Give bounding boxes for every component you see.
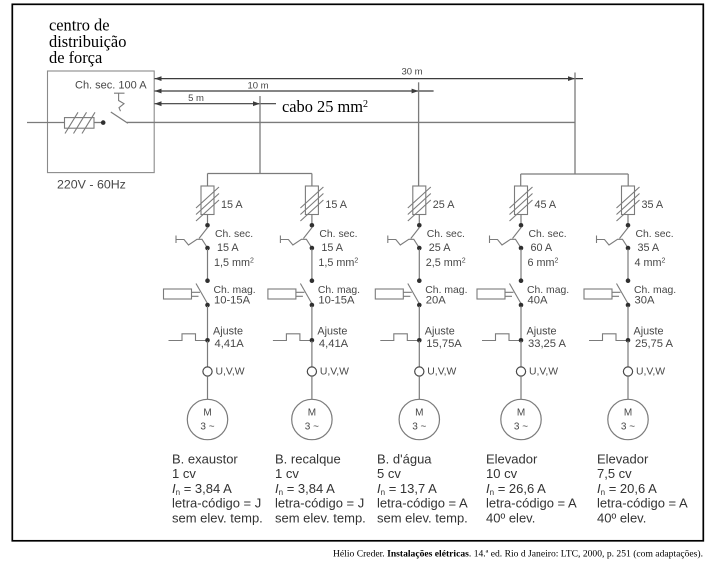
svg-text:Ajuste: Ajuste [317,326,347,338]
svg-text:5 cv: 5 cv [377,466,401,481]
svg-text:U,V,W: U,V,W [320,367,349,378]
svg-text:1 cv: 1 cv [172,466,196,481]
svg-text:1,5 mm2: 1,5 mm2 [318,257,358,269]
svg-text:Ajuste: Ajuste [213,326,243,338]
svg-text:3 ~: 3 ~ [305,422,319,433]
svg-text:30A: 30A [635,295,655,307]
svg-text:Ch. sec.: Ch. sec. [529,229,567,240]
svg-text:30 m: 30 m [401,67,422,78]
svg-text:3 ~: 3 ~ [514,422,528,433]
svg-text:3 ~: 3 ~ [621,422,635,433]
svg-text:4,41A: 4,41A [319,338,349,350]
svg-text:M: M [517,408,525,419]
svg-text:Ch. sec.: Ch. sec. [215,229,253,240]
svg-text:U,V,W: U,V,W [636,367,665,378]
svg-text:15,75A: 15,75A [426,338,462,350]
svg-text:Ch. sec.: Ch. sec. [319,229,357,240]
svg-text:6 mm2: 6 mm2 [528,257,559,269]
svg-text:sem elev. temp.: sem elev. temp. [172,510,263,525]
svg-text:2,5 mm2: 2,5 mm2 [426,257,466,269]
svg-text:letra-código = J: letra-código = J [172,496,261,511]
svg-text:25 A: 25 A [429,242,451,254]
svg-text:sem elev. temp.: sem elev. temp. [275,510,366,525]
svg-text:In = 20,6 A: In = 20,6 A [597,481,657,497]
svg-text:Elevador: Elevador [597,452,649,467]
svg-text:15 A: 15 A [325,199,347,211]
svg-text:35 A: 35 A [642,199,664,211]
svg-text:Hélio Creder. Instalações elét: Hélio Creder. Instalações elétricas. 14.… [333,549,703,560]
svg-text:M: M [203,408,211,419]
svg-text:1 cv: 1 cv [275,466,299,481]
svg-text:B. recalque: B. recalque [275,452,341,467]
svg-text:45 A: 45 A [535,199,557,211]
svg-text:B. exaustor: B. exaustor [172,452,238,467]
svg-text:Ajuste: Ajuste [527,326,557,338]
svg-text:40º elev.: 40º elev. [486,510,535,525]
svg-text:U,V,W: U,V,W [427,367,456,378]
svg-text:Ch. sec.: Ch. sec. [427,229,465,240]
svg-text:Elevador: Elevador [486,452,538,467]
svg-text:4,41A: 4,41A [215,338,245,350]
svg-text:Ch. sec.: Ch. sec. [636,229,674,240]
svg-text:In = 13,7 A: In = 13,7 A [377,481,437,497]
svg-text:sem elev. temp.: sem elev. temp. [377,510,468,525]
svg-text:10 cv: 10 cv [486,466,518,481]
svg-text:33,25 A: 33,25 A [528,338,566,350]
svg-text:letra-código = A: letra-código = A [597,496,688,511]
svg-text:U,V,W: U,V,W [529,367,558,378]
svg-text:10-15A: 10-15A [318,295,355,307]
svg-text:60 A: 60 A [531,242,553,254]
svg-text:15 A: 15 A [221,199,243,211]
svg-text:10 m: 10 m [247,81,268,92]
svg-text:M: M [415,408,423,419]
svg-text:7,5 cv: 7,5 cv [597,466,632,481]
svg-text:In = 26,6 A: In = 26,6 A [486,481,546,497]
svg-text:letra-código = A: letra-código = A [377,496,468,511]
svg-text:10-15A: 10-15A [214,295,251,307]
svg-text:5 m: 5 m [188,93,204,104]
svg-text:4 mm2: 4 mm2 [635,257,666,269]
svg-text:U,V,W: U,V,W [216,367,245,378]
svg-text:15 A: 15 A [217,242,239,254]
svg-text:In = 3,84 A: In = 3,84 A [172,481,232,497]
svg-text:25 A: 25 A [433,199,455,211]
svg-text:3 ~: 3 ~ [412,422,426,433]
svg-text:cabo 25 mm2: cabo 25 mm2 [282,97,368,116]
svg-text:Ajuste: Ajuste [634,326,664,338]
svg-text:In = 3,84 A: In = 3,84 A [275,481,335,497]
svg-text:40º elev.: 40º elev. [597,510,646,525]
svg-text:220V - 60Hz: 220V - 60Hz [57,178,126,192]
svg-text:letra-código = J: letra-código = J [275,496,364,511]
svg-text:1,5 mm2: 1,5 mm2 [214,257,254,269]
svg-text:35 A: 35 A [638,242,660,254]
svg-text:15 A: 15 A [321,242,343,254]
svg-text:20A: 20A [426,295,446,307]
svg-text:B. d'água: B. d'água [377,452,432,467]
svg-text:Ch. sec. 100 A: Ch. sec. 100 A [75,80,147,92]
svg-text:3 ~: 3 ~ [200,422,214,433]
svg-text:25,75 A: 25,75 A [635,338,673,350]
svg-text:de força: de força [49,48,103,67]
svg-text:M: M [308,408,316,419]
svg-text:40A: 40A [528,295,548,307]
svg-text:letra-código = A: letra-código = A [486,496,577,511]
svg-text:Ajuste: Ajuste [425,326,455,338]
svg-text:M: M [624,408,632,419]
